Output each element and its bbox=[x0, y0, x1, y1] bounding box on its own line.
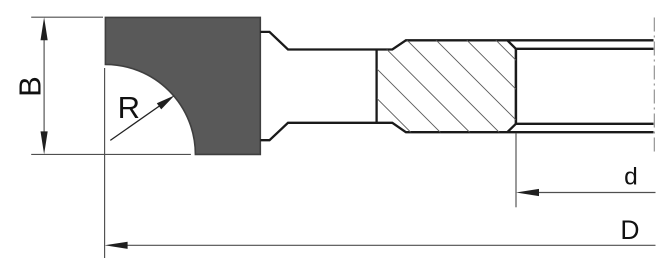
radius arrow R (leader line) bbox=[110, 98, 171, 140]
wire: shank outline bottom bbox=[260, 123, 653, 140]
svg-text:R: R bbox=[118, 90, 140, 125]
svg-text:D: D bbox=[620, 215, 639, 245]
wire: bore chamfer top and bore line top bbox=[507, 40, 653, 49]
extension line: vertical through arc centre / D datum bbox=[104, 68, 106, 258]
svg-text:B: B bbox=[13, 76, 48, 97]
wire: hub section left edge bbox=[375, 50, 377, 123]
arrowhead D bbox=[105, 242, 128, 249]
wire: shank outline top (stub, chamfer, neck, rise to head, outer line to axis) bbox=[260, 32, 653, 50]
wire: bore chamfer bottom and bore line bottom bbox=[507, 124, 653, 132]
extension line: d datum (right edge of hub bore) bbox=[515, 133, 517, 207]
profile knife body (quarter-round cutter profile, dark gray) bbox=[105, 17, 260, 154]
extension line: bottom of B / through arc centre bbox=[31, 153, 191, 155]
hatching of sectioned hub bbox=[287, 38, 590, 134]
arrowhead B top bbox=[41, 17, 48, 40]
dimension D line bbox=[125, 244, 656, 246]
wire: hub section right edge bbox=[515, 49, 518, 124]
dimension B line bbox=[43, 36, 45, 136]
dimension d line bbox=[536, 192, 656, 194]
extension line: top of B bbox=[31, 16, 103, 18]
arrowhead R bbox=[157, 95, 175, 109]
axis centerline (dash-dot) bbox=[653, 18, 655, 155]
arrowhead d bbox=[516, 189, 539, 196]
svg-text:d: d bbox=[624, 164, 638, 191]
arrowhead B bottom bbox=[41, 131, 48, 154]
